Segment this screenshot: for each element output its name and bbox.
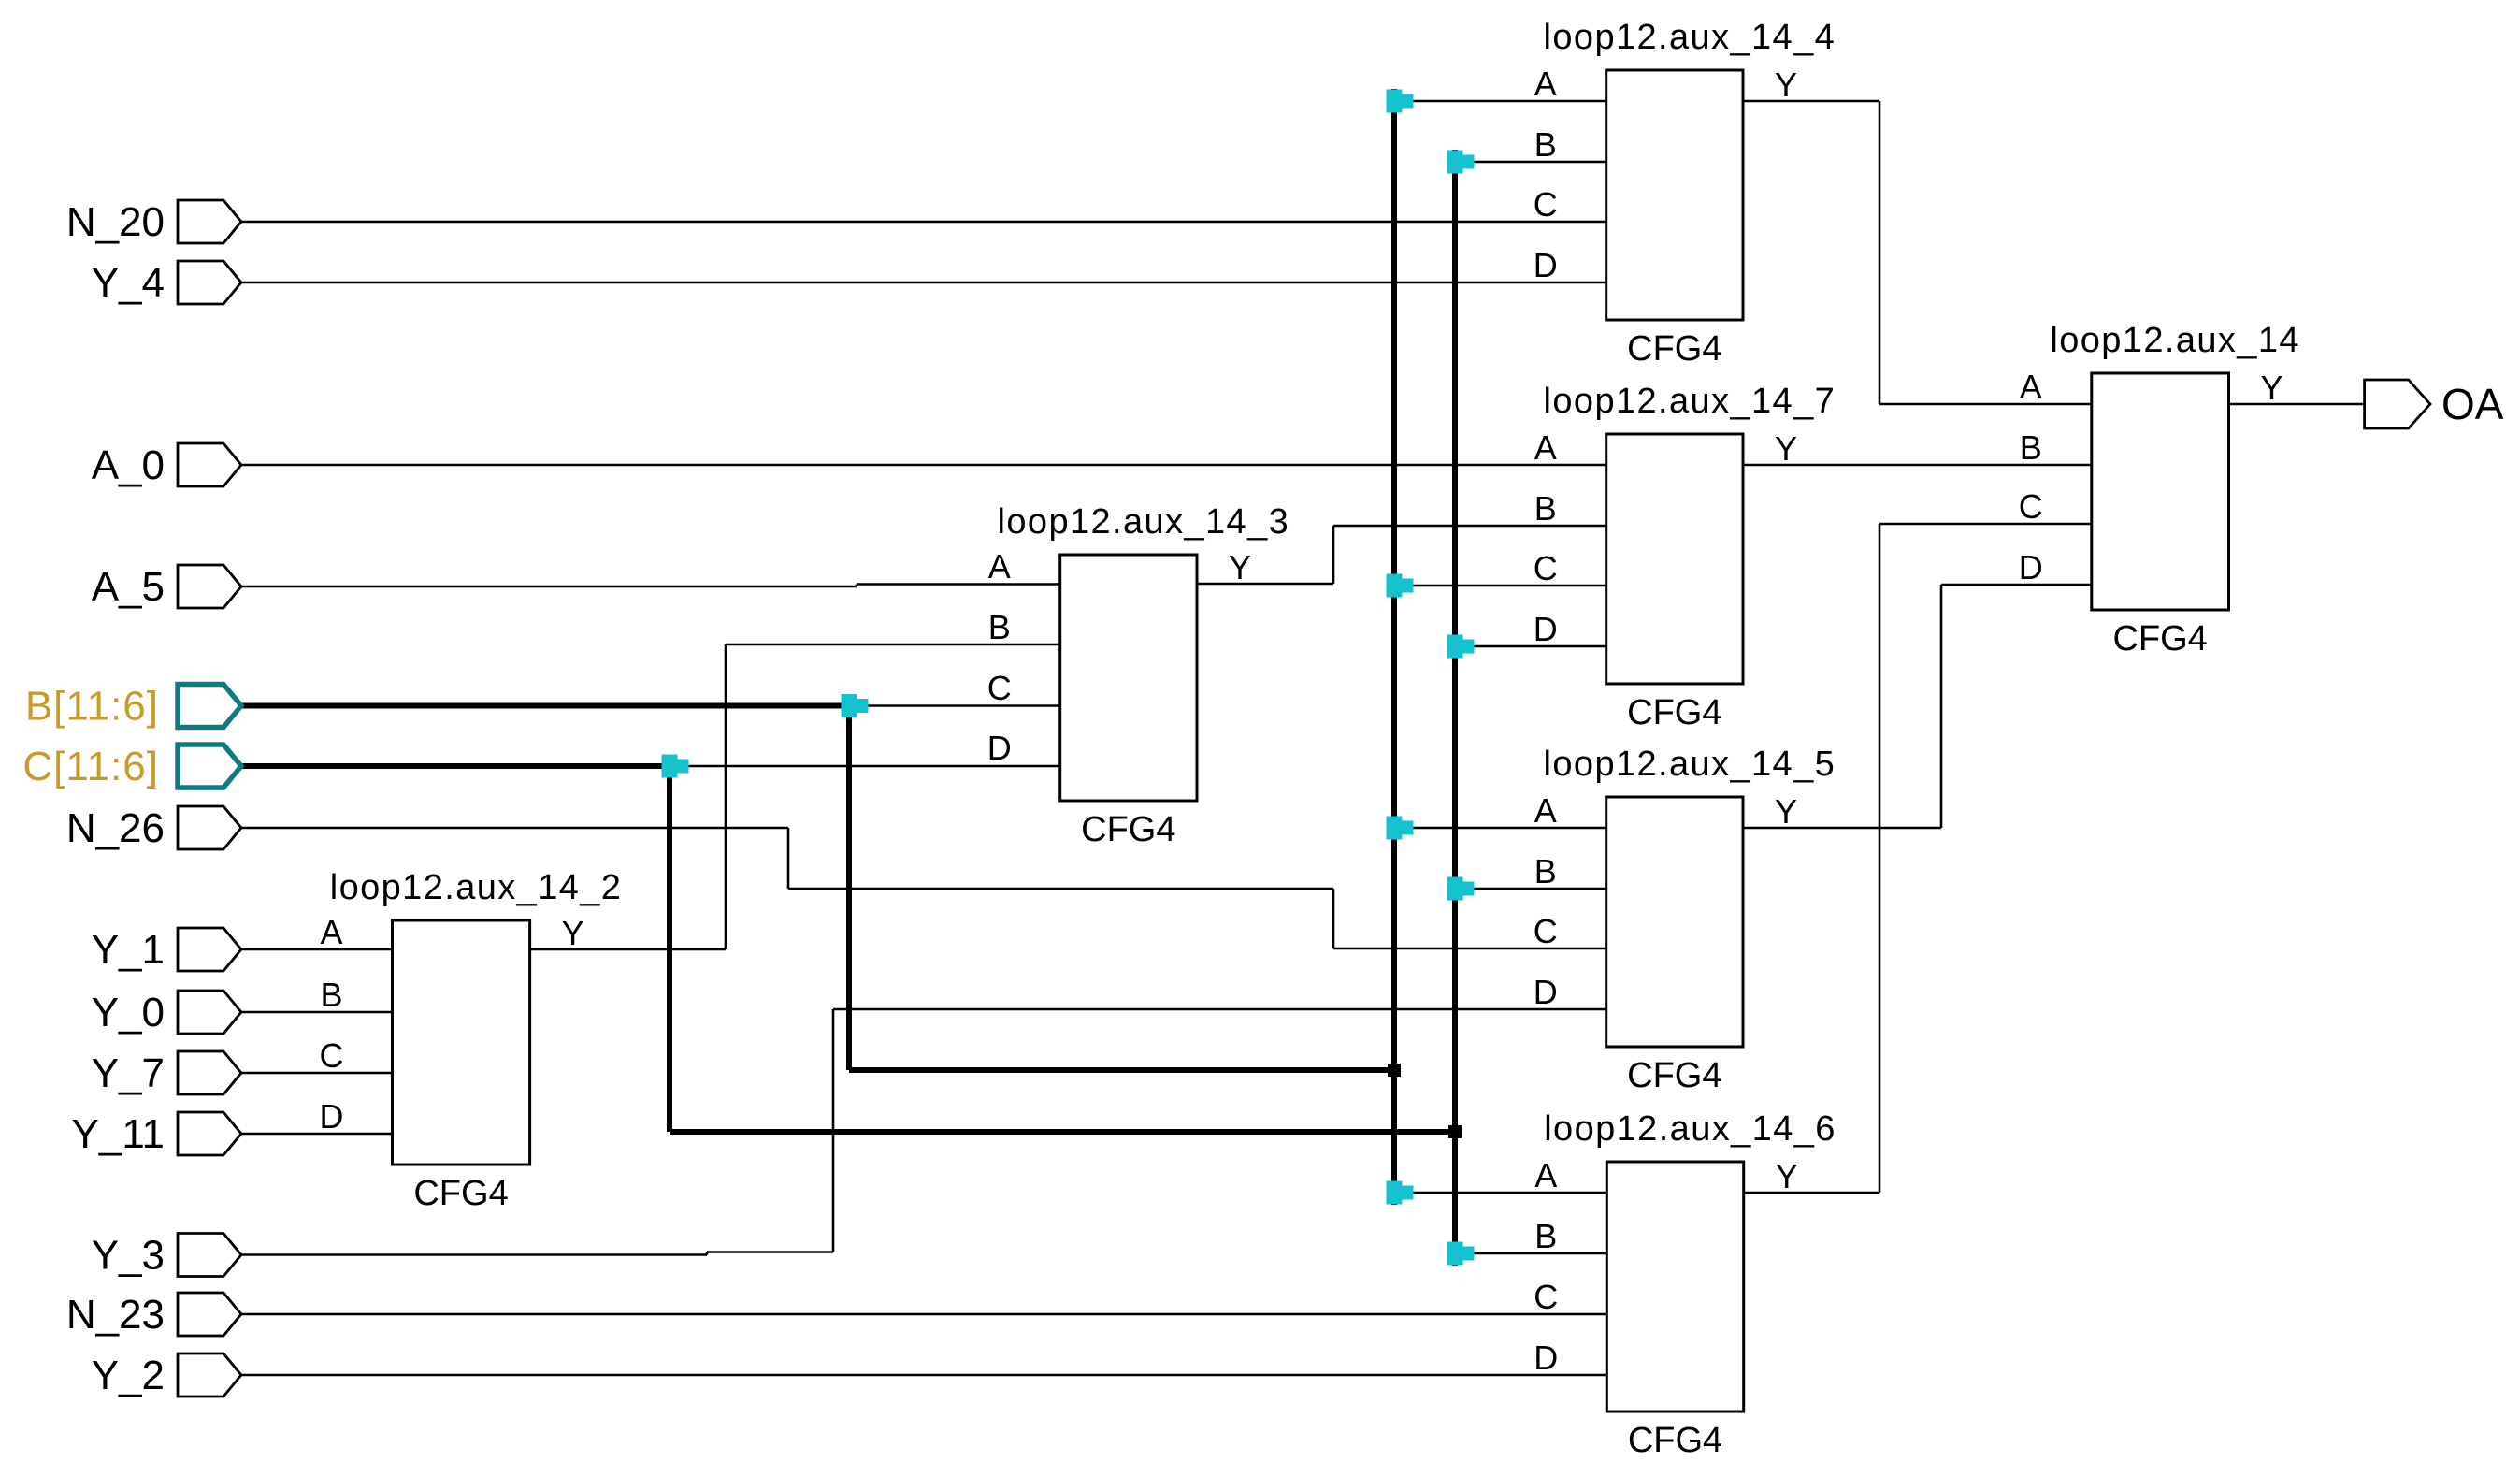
svg-text:C: C [1534,549,1558,587]
svg-text:C: C [987,669,1012,707]
svg-text:A: A [1534,428,1557,467]
svg-text:Y: Y [1775,65,1797,104]
svg-text:Y: Y [2260,369,2282,407]
svg-text:D: D [987,729,1012,767]
svg-text:D: D [1534,610,1558,648]
svg-text:N_20: N_20 [66,199,165,245]
svg-text:OA: OA [2441,380,2504,428]
svg-text:CFG4: CFG4 [1627,329,1721,369]
svg-text:B: B [1534,125,1557,164]
svg-text:B: B [320,976,342,1014]
svg-text:Y_0: Y_0 [92,990,165,1035]
svg-text:A: A [1534,791,1557,830]
svg-text:N_23: N_23 [66,1292,165,1338]
svg-text:CFG4: CFG4 [1627,1056,1721,1095]
svg-text:loop12.aux_14_4: loop12.aux_14_4 [1544,18,1836,57]
svg-text:D: D [320,1097,344,1136]
svg-text:D: D [1534,1339,1558,1377]
svg-text:CFG4: CFG4 [1081,810,1175,849]
svg-text:Y_2: Y_2 [92,1353,165,1398]
svg-text:Y: Y [1775,429,1797,468]
svg-text:C: C [1534,1278,1558,1316]
svg-text:N_26: N_26 [66,805,165,851]
svg-text:C[11:6]: C[11:6] [22,744,159,789]
svg-text:Y_7: Y_7 [92,1050,165,1096]
svg-text:B: B [1534,1217,1557,1255]
svg-text:D: D [1534,973,1558,1011]
svg-text:Y_11: Y_11 [72,1111,166,1157]
svg-text:loop12.aux_14_2: loop12.aux_14_2 [330,868,623,907]
svg-text:A_0: A_0 [92,442,165,488]
svg-text:A_5: A_5 [92,564,165,610]
svg-text:D: D [2019,548,2043,586]
svg-text:loop12.aux_14_5: loop12.aux_14_5 [1544,745,1836,784]
svg-text:B[11:6]: B[11:6] [25,684,159,730]
svg-text:C: C [320,1036,344,1075]
svg-text:B: B [988,608,1011,646]
svg-text:A: A [1534,65,1557,103]
svg-text:CFG4: CFG4 [1627,693,1721,732]
svg-text:B: B [1534,489,1557,528]
svg-text:A: A [988,547,1011,586]
svg-text:Y: Y [1776,1157,1798,1195]
svg-text:Y_4: Y_4 [92,260,165,306]
svg-text:C: C [1534,912,1558,950]
svg-text:loop12.aux_14_7: loop12.aux_14_7 [1544,382,1836,421]
svg-text:B: B [2020,428,2042,467]
svg-text:loop12.aux_14: loop12.aux_14 [2050,321,2300,360]
svg-text:Y: Y [1775,792,1797,831]
svg-text:A: A [1534,1156,1557,1194]
svg-text:A: A [320,913,342,951]
svg-text:Y: Y [562,914,584,952]
svg-text:CFG4: CFG4 [413,1174,508,1213]
svg-text:Y_1: Y_1 [92,927,165,973]
svg-text:loop12.aux_14_3: loop12.aux_14_3 [998,502,1290,542]
svg-text:CFG4: CFG4 [2112,619,2207,659]
svg-text:A: A [2020,368,2042,406]
svg-text:D: D [1534,246,1558,284]
svg-text:Y_3: Y_3 [92,1233,165,1279]
svg-text:C: C [1534,185,1558,224]
svg-text:Y: Y [1229,548,1251,586]
svg-text:B: B [1534,852,1557,890]
svg-text:loop12.aux_14_6: loop12.aux_14_6 [1544,1109,1836,1149]
svg-text:CFG4: CFG4 [1628,1421,1722,1460]
svg-text:C: C [2019,487,2043,526]
